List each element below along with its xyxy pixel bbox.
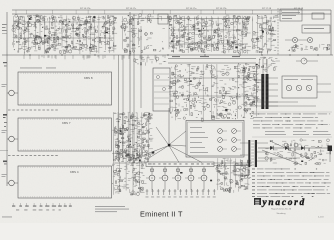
wire stage coupling run D: [170, 43, 248, 45]
wire star up: [168, 108, 170, 144]
revision note block: [95, 205, 125, 208]
module box KBS 8: [18, 72, 112, 105]
meter M1: [301, 58, 307, 64]
wire star upper-right: [170, 131, 186, 144]
output transformer Tr2 core bars: [261, 74, 264, 109]
pilot lamp La1: [292, 37, 297, 42]
tube V1 envelope: [34, 36, 41, 43]
wire psu main rail y=148: [258, 147, 330, 149]
wire long feed y=18.5: [133, 18, 250, 20]
jack label KBS 4: [2, 173, 7, 176]
bottom left corner text: [2, 216, 12, 219]
vibrato / modulation section: [168, 64, 259, 122]
echo unit block box: [153, 68, 170, 111]
speaker jack Bu5: [286, 85, 292, 91]
power supply info box: [280, 9, 302, 21]
wire mid rail lower y=63: [168, 62, 256, 64]
input jack for KBS 8: [9, 90, 15, 96]
table divider lines: [252, 111, 332, 113]
preamp channel strip 1 (T1..T6 area): [12, 15, 117, 55]
pilot lamp La2: [307, 37, 312, 42]
wire star lower-right long: [170, 146, 202, 163]
wire bus continue left: [115, 162, 146, 164]
wire vertical feed x=141: [140, 36, 142, 108]
dashed divider between amp and power supply: [277, 8, 279, 55]
wire main vertical bus x=134: [133, 14, 135, 162]
driver stage (T15..T16 area): [251, 15, 278, 55]
wire left vertical input bus: [6, 12, 8, 186]
potentiometer P5: [232, 138, 237, 143]
junction dots on bus y55: [29, 54, 318, 55]
bottom left parts row: [12, 203, 72, 210]
potentiometer P3: [218, 147, 223, 152]
wire lamp feed: [285, 39, 292, 41]
tone control stage (T10..T14 area): [167, 15, 251, 54]
output transistor T21: [162, 175, 168, 181]
module box KBS 4: [18, 166, 112, 198]
wire right edge drop: [330, 10, 332, 55]
mixer right sparse area: [137, 28, 165, 49]
wire mid section run F: [170, 95, 256, 97]
wire bus continue right: [214, 162, 252, 164]
long equalizer bus box: [146, 162, 214, 167]
wire psu lower rail: [258, 157, 300, 159]
coupling box above echo unit: [158, 14, 168, 24]
phase splitter cluster: [112, 149, 147, 195]
left edge marks between modules 2-3: [3, 161, 7, 163]
wire Tr2 primary top: [262, 59, 264, 74]
wire stage coupling run C: [170, 29, 248, 31]
mixer right upper row: [137, 14, 162, 25]
jack label KBS 8: [2, 83, 7, 86]
diode D1: [270, 146, 274, 150]
fuse Si2: [284, 143, 288, 147]
speaker connector box: [282, 76, 317, 98]
input jack for KBS 4: [9, 180, 15, 186]
voltage table rows: [253, 114, 331, 136]
left edge marks above module 1: [3, 62, 7, 63]
wire top supply rail lower: [12, 13, 331, 15]
diode D2: [285, 146, 289, 150]
wire horizontal bus y=55: [2, 54, 333, 56]
wire stubs below bus y55: [24, 55, 165, 60]
wire star lower-right short: [170, 147, 180, 163]
relay box: [234, 165, 249, 175]
wire stage coupling run B: [14, 37, 114, 39]
potentiometer P4: [232, 129, 237, 134]
wire psu diagonal 2: [270, 141, 312, 160]
upper mid spillover: [134, 57, 166, 66]
wire Tr1 leads right: [257, 142, 268, 144]
wire psu diagonal 1: [262, 150, 302, 165]
output transistor T23: [188, 175, 194, 181]
rectifier + filter cluster: [265, 139, 333, 166]
wire speaker return lines: [252, 101, 298, 103]
left edge marks between modules 1-2: [3, 114, 7, 116]
wire vertical feed x=118.5: [118, 55, 120, 162]
output stage parts left of Tr2: [242, 63, 261, 108]
wire star left-down long: [127, 146, 168, 162]
diode D3: [301, 146, 305, 150]
wire star upper-left: [156, 127, 168, 144]
potentiometer P1: [218, 129, 223, 134]
bias network cluster: [216, 158, 251, 193]
reverb driver IC1 cluster: [113, 112, 154, 163]
potentiometer P6: [232, 147, 237, 152]
filter capacitor C90: [328, 146, 333, 152]
output transistor T22: [175, 175, 181, 181]
mixer right lower row: [139, 46, 164, 53]
output driver section: [258, 57, 280, 71]
star ground node: [168, 144, 171, 147]
fuse holder Si1: [312, 13, 324, 19]
schematic notes text block: [252, 169, 331, 197]
wire speaker box feeds: [317, 83, 331, 85]
wire top supply rail upper: [12, 9, 331, 11]
dashed separator line below module 1: [8, 109, 58, 111]
electrolytic capacitor row: [146, 189, 216, 197]
wire main vertical bus x=130: [129, 12, 131, 162]
wire stage coupling run A: [14, 21, 114, 23]
note text above module 1: [20, 67, 42, 70]
rail tie ticks: [16, 10, 298, 14]
output transistor T24: [201, 175, 207, 181]
wire mid rail upper y=58.5: [168, 58, 256, 60]
jack label KBS 7: [2, 129, 7, 132]
speaker jack Bu7: [306, 85, 312, 91]
mixer stage (T7..T9 area): [121, 15, 138, 54]
wire Tr1 leads left: [240, 142, 248, 144]
output transistor T20: [149, 175, 155, 181]
dashed separator line below module 2: [8, 155, 58, 157]
net label mid rail 1: [172, 56, 180, 57]
mixer small parts near x140: [139, 30, 142, 31]
wire star right: [170, 145, 186, 146]
Dynacord logo mark: [254, 198, 261, 205]
input jack for KBS 7: [9, 136, 15, 142]
net label mid rail 2: [200, 56, 209, 57]
wire star lower-left: [149, 146, 168, 158]
rectifier box Gl1: [302, 25, 330, 33]
wire vertical feed x=123: [122, 55, 124, 162]
mains switch wiring: [288, 44, 330, 52]
speaker jack Bu6: [296, 85, 302, 91]
net label mid rail 3: [232, 56, 240, 57]
mains transformer Tr1 core bars: [248, 140, 250, 167]
potentiometer P2: [218, 138, 223, 143]
module box KBS 7: [18, 118, 112, 151]
wire meter leads: [296, 60, 301, 62]
wire mid section run E: [170, 77, 256, 79]
fuse Si3: [294, 143, 298, 147]
input attenuator marks left edge: [2, 23, 7, 26]
left edge tick y150: [0, 150, 8, 152]
dark scan clumps: [29, 16, 303, 181]
wire psu drop x=330: [329, 151, 331, 162]
control panel box: [186, 121, 244, 158]
